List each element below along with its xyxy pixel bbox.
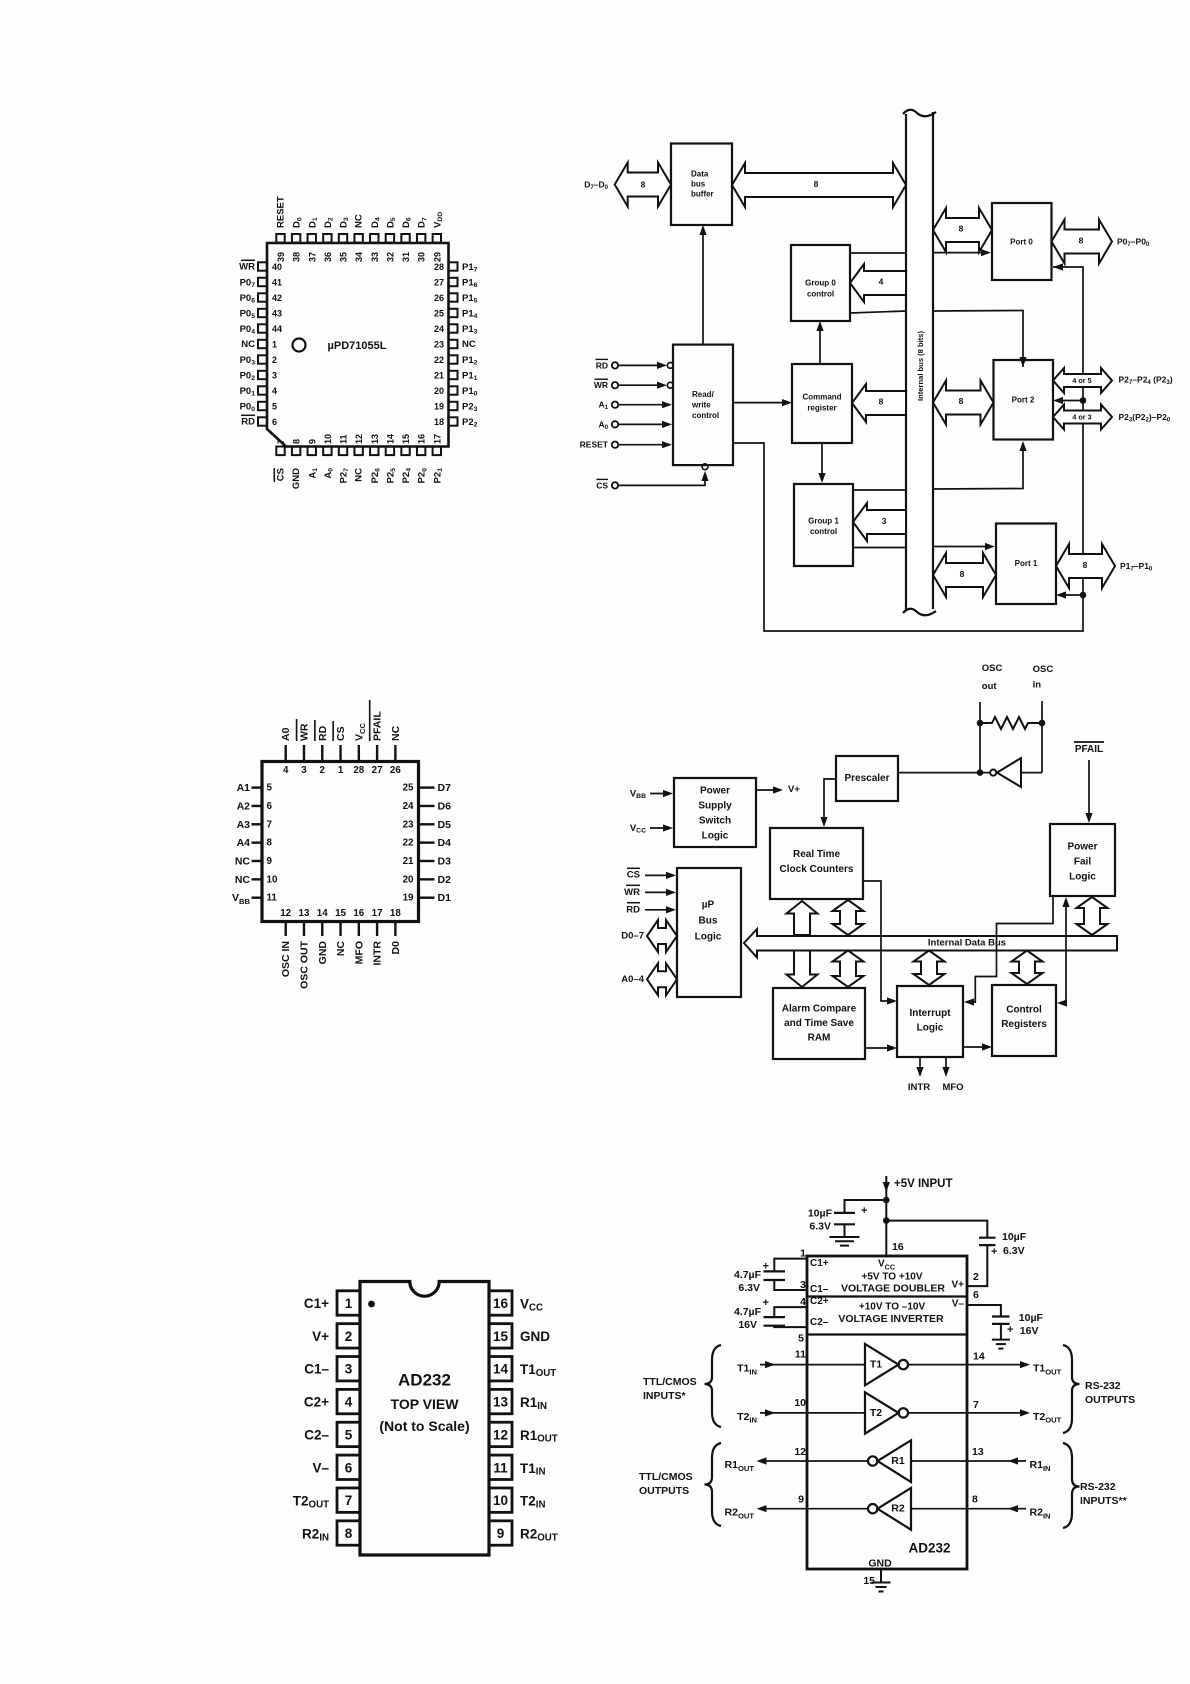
svg-text:23: 23: [434, 340, 444, 350]
block control registers: [992, 985, 1056, 1056]
svg-text:D1: D1: [438, 892, 452, 904]
block port 0: [992, 203, 1052, 280]
svg-text:OUTPUTS: OUTPUTS: [639, 1485, 689, 1497]
svg-text:RD: RD: [596, 360, 608, 370]
svg-text:4: 4: [283, 765, 289, 776]
IC U1 uPD71055L PLCC-44 package outline: [267, 243, 449, 447]
pin 42 (P06) left: [258, 293, 267, 301]
svg-text:1: 1: [800, 1248, 806, 1260]
pin 22 (D4) right: [419, 841, 435, 843]
svg-text:13: 13: [299, 908, 310, 919]
svg-text:9: 9: [798, 1494, 804, 1506]
svg-text:T2OUT: T2OUT: [1033, 1411, 1062, 1424]
svg-text:Command: Command: [802, 393, 841, 402]
svg-text:A0: A0: [598, 419, 608, 430]
svg-text:WR: WR: [624, 887, 640, 898]
svg-text:T1OUT: T1OUT: [1033, 1363, 1062, 1376]
svg-text:VOLTAGE INVERTER: VOLTAGE INVERTER: [838, 1313, 944, 1325]
svg-text:2: 2: [345, 1329, 353, 1344]
pin 11 (P27) bottom: [339, 447, 347, 456]
capacitor C4 10uF 6.3V: [886, 1221, 987, 1238]
svg-text:OSC IN: OSC IN: [280, 941, 292, 977]
svg-text:Port 2: Port 2: [1012, 396, 1035, 405]
svg-text:C1–: C1–: [304, 1362, 329, 1377]
svg-text:V+: V+: [788, 784, 800, 795]
svg-text:38: 38: [292, 252, 302, 262]
svg-text:AD232: AD232: [908, 1541, 950, 1556]
svg-text:A0: A0: [280, 727, 292, 741]
svg-text:+5V INPUT: +5V INPUT: [894, 1178, 952, 1190]
svg-text:29: 29: [432, 252, 442, 262]
svg-text:13: 13: [370, 434, 380, 444]
svg-text:V+: V+: [951, 1280, 964, 1291]
capacitor C5 10uF 16V: [967, 1305, 1001, 1317]
pin 41 (P07) left: [258, 278, 267, 286]
svg-text:4 or 3: 4 or 3: [1072, 413, 1091, 422]
svg-text:8: 8: [1079, 236, 1084, 246]
svg-text:6: 6: [267, 801, 273, 812]
svg-text:13: 13: [493, 1395, 509, 1410]
svg-text:INPUTS*: INPUTS*: [643, 1390, 687, 1402]
pin 24 (P13) right: [449, 324, 458, 332]
block port 1: [996, 524, 1056, 605]
pin 5 (A1) left: [252, 786, 263, 788]
svg-text:14: 14: [317, 908, 328, 919]
svg-text:and Time Save: and Time Save: [784, 1018, 854, 1029]
svg-text:7: 7: [973, 1399, 979, 1411]
pin 21 (P11) right: [449, 371, 458, 379]
svg-text:12: 12: [794, 1446, 806, 1458]
pin 15 (P24) bottom: [401, 447, 409, 456]
block data bus buffer: [671, 144, 732, 226]
svg-text:11: 11: [795, 1349, 806, 1361]
svg-text:18: 18: [434, 417, 444, 427]
bus arrow RTC counters to data bus (write): [787, 901, 818, 935]
svg-text:Prescaler: Prescaler: [844, 773, 889, 784]
capacitor C3 10uF 6.3V: [845, 1200, 887, 1213]
svg-text:WR: WR: [594, 380, 608, 390]
wire OSC in to inverter input: [1021, 772, 1042, 774]
svg-text:5: 5: [267, 783, 273, 794]
wire read/write control feedback to ports (right loop): [733, 267, 1083, 631]
pin 1 (NC) left: [258, 340, 267, 348]
pin 1 (C1+) left: [337, 1291, 360, 1315]
svg-text:MFO: MFO: [942, 1082, 963, 1093]
svg-text:Supply: Supply: [698, 801, 732, 812]
pin 27 (PFAIL) top: [376, 745, 378, 762]
svg-text:T2IN: T2IN: [737, 1411, 757, 1424]
pin 1 indicator dot: [368, 1301, 375, 1308]
svg-text:A1: A1: [237, 782, 251, 794]
svg-text:C1+: C1+: [304, 1296, 329, 1311]
svg-text:NC: NC: [354, 468, 365, 482]
pin 20 (P10) right: [449, 386, 458, 394]
svg-text:P14: P14: [462, 308, 478, 320]
block alarm compare and time save RAM: [773, 988, 865, 1059]
wire inverter output to prescaler: [898, 772, 990, 774]
svg-text:NC: NC: [235, 874, 251, 886]
block prescaler: [836, 756, 898, 801]
pin 14 (T1OUT) right: [489, 1357, 512, 1381]
svg-text:+: +: [1007, 1324, 1013, 1336]
svg-text:D0: D0: [291, 217, 303, 228]
svg-text:4: 4: [272, 386, 277, 396]
brace TTL/CMOS outputs: [705, 1443, 722, 1526]
svg-text:3: 3: [345, 1362, 353, 1377]
svg-text:12: 12: [280, 908, 291, 919]
pin 15 (GND) right: [489, 1324, 512, 1348]
svg-text:4: 4: [800, 1296, 806, 1308]
svg-text:R1OUT: R1OUT: [520, 1427, 558, 1444]
svg-text:P15: P15: [462, 293, 478, 305]
output INTR: [919, 1057, 921, 1071]
svg-text:D3: D3: [338, 217, 350, 228]
junction dot inverter output / OSC out: [977, 769, 984, 776]
wire group 1 control to port 2 bottom: [853, 489, 906, 491]
svg-text:Internal Data Bus: Internal Data Bus: [928, 938, 1006, 949]
internal data bus band: [744, 929, 1117, 958]
pin 13 (P26) bottom: [370, 447, 378, 456]
svg-text:18: 18: [390, 908, 401, 919]
pin 12 (NC) bottom: [354, 447, 362, 456]
svg-text:24: 24: [434, 324, 444, 334]
svg-text:µP: µP: [702, 900, 715, 911]
svg-text:T1IN: T1IN: [737, 1363, 757, 1376]
svg-text:P27: P27: [338, 468, 350, 484]
pin 27 (P16) right: [449, 278, 458, 286]
capacitor C1 4.7uF 6.3V: [774, 1259, 807, 1272]
wire group 0 control to port 0: [850, 252, 906, 254]
svg-text:8: 8: [267, 838, 273, 849]
svg-text:15: 15: [401, 434, 411, 444]
svg-text:C2+: C2+: [810, 1296, 829, 1307]
svg-text:22: 22: [434, 355, 444, 365]
svg-text:T1: T1: [870, 1359, 882, 1371]
svg-text:5: 5: [798, 1333, 804, 1345]
buffer T1: [760, 1364, 865, 1366]
svg-text:OSC: OSC: [982, 663, 1003, 674]
svg-text:D7: D7: [438, 782, 452, 794]
svg-text:+5V TO +10V: +5V TO +10V: [862, 1272, 923, 1283]
svg-text:4.7µF: 4.7µF: [734, 1269, 762, 1281]
svg-text:8: 8: [960, 569, 965, 579]
svg-text:Switch: Switch: [699, 816, 731, 827]
svg-text:8: 8: [959, 224, 964, 234]
svg-text:+: +: [762, 1297, 768, 1309]
pin 16 (P20) bottom: [417, 447, 425, 456]
svg-text:10: 10: [493, 1493, 508, 1508]
pin 8 (R2IN) left: [337, 1521, 360, 1545]
svg-text:21: 21: [403, 856, 414, 867]
svg-text:10: 10: [323, 434, 333, 444]
svg-text:27: 27: [434, 278, 444, 288]
svg-text:D6: D6: [401, 217, 413, 228]
svg-text:5: 5: [345, 1427, 353, 1442]
svg-text:15: 15: [335, 908, 346, 919]
pin 18 (D0) bottom: [394, 922, 396, 937]
svg-text:16: 16: [417, 434, 427, 444]
svg-text:C2–: C2–: [304, 1427, 329, 1442]
svg-text:8: 8: [1083, 560, 1088, 570]
svg-text:Power: Power: [700, 786, 730, 797]
input WR to read/write control: [612, 382, 618, 388]
svg-text:Real Time: Real Time: [793, 849, 840, 860]
svg-text:P12: P12: [462, 355, 478, 367]
svg-text:P17–P10: P17–P10: [1120, 561, 1153, 572]
pin 19 (P23) right: [449, 402, 458, 410]
IC U2 real-time clock 28-pin package outline: [262, 762, 419, 922]
svg-text:11: 11: [339, 434, 349, 444]
svg-text:T2OUT: T2OUT: [293, 1493, 329, 1510]
svg-text:WR: WR: [239, 262, 255, 273]
receiver R2: [911, 1508, 967, 1510]
svg-text:16: 16: [353, 908, 364, 919]
junction dot OSC in / resistor: [1039, 720, 1046, 727]
svg-text:6: 6: [345, 1460, 353, 1475]
svg-text:8: 8: [959, 396, 964, 406]
pin 2 (P03) left: [258, 355, 267, 363]
junction dot +5V/C4: [883, 1217, 890, 1224]
svg-text:6.3V: 6.3V: [1003, 1245, 1025, 1257]
pin 28 (VCC) top: [358, 745, 360, 762]
svg-text:P00: P00: [240, 401, 256, 413]
pin 21 (D3) right: [419, 860, 435, 862]
svg-text:32: 32: [385, 252, 395, 262]
svg-text:20: 20: [434, 386, 444, 396]
svg-text:VDD: VDD: [432, 212, 444, 228]
svg-text:TOP VIEW: TOP VIEW: [391, 1396, 460, 1412]
svg-text:in: in: [1033, 680, 1042, 691]
ground (C3): [844, 1224, 846, 1237]
block read/write control: [673, 345, 733, 466]
pin 2 (RD) top: [321, 745, 323, 762]
svg-text:P13: P13: [462, 324, 478, 336]
wire power fail logic to interrupt logic: [970, 896, 1053, 1002]
pin 23 (NC) right: [449, 340, 458, 348]
svg-text:Bus: Bus: [699, 916, 718, 927]
block command register: [792, 364, 852, 443]
svg-text:Alarm Compare: Alarm Compare: [782, 1004, 857, 1015]
block port 2: [994, 360, 1054, 440]
svg-text:P05: P05: [240, 308, 256, 320]
svg-text:RS-232: RS-232: [1080, 1481, 1116, 1493]
svg-text:3: 3: [272, 371, 277, 381]
junction dot OSC out / resistor: [977, 720, 984, 727]
receiver R1: [911, 1460, 967, 1462]
svg-text:T2: T2: [870, 1407, 882, 1419]
wire RTC counters to interrupt logic (crossing bus): [863, 881, 891, 1001]
pin 43 (P05) left: [258, 309, 267, 317]
svg-text:D0–7: D0–7: [621, 931, 644, 942]
input CS to read/write control: [612, 482, 618, 488]
svg-text:Data: Data: [691, 170, 709, 179]
svg-text:Internal bus (8 bits): Internal bus (8 bits): [916, 330, 925, 401]
svg-text:INTR: INTR: [372, 941, 384, 966]
svg-text:15: 15: [863, 1575, 875, 1587]
wire command register to group 1 control: [821, 443, 823, 477]
svg-text:R2: R2: [891, 1503, 905, 1515]
svg-text:D5: D5: [385, 217, 397, 228]
svg-text:P26: P26: [369, 468, 381, 484]
junction dot +5V/C3: [883, 1197, 890, 1204]
pin 1 (CS) top: [339, 745, 341, 762]
bus arrow internal bus to port 2: [933, 381, 994, 425]
bus arrow port 2 upper external (4 or 5): [1053, 368, 1112, 393]
pin 4 (P01) left: [258, 386, 267, 394]
svg-text:D2: D2: [438, 874, 452, 886]
svg-text:14: 14: [973, 1351, 985, 1363]
pin 8 (GND) bottom: [292, 447, 300, 456]
svg-text:33: 33: [370, 252, 380, 262]
svg-text:25: 25: [434, 309, 444, 319]
wire OSC out: [979, 702, 981, 773]
svg-text:1: 1: [272, 340, 277, 350]
bus arrow data bus to alarm RAM (write): [787, 951, 818, 988]
bus arrow data bus buffer to internal bus: [732, 163, 906, 207]
input RESET to read/write control: [612, 442, 618, 448]
svg-text:26: 26: [434, 293, 444, 303]
svg-text:13: 13: [972, 1446, 984, 1458]
svg-text:buffer: buffer: [691, 190, 714, 199]
svg-text:PFAIL: PFAIL: [372, 711, 384, 741]
svg-text:9: 9: [307, 439, 317, 444]
svg-text:4: 4: [345, 1395, 353, 1410]
svg-text:1: 1: [338, 765, 344, 776]
pin 12 (OSC IN) bottom: [285, 922, 287, 937]
svg-text:R1OUT: R1OUT: [725, 1459, 755, 1472]
svg-text:12: 12: [354, 434, 364, 444]
svg-text:GND: GND: [520, 1329, 550, 1344]
node +5V INPUT: [885, 1176, 887, 1256]
svg-text:A0: A0: [322, 468, 334, 479]
svg-text:36: 36: [323, 252, 333, 262]
svg-text:NC: NC: [241, 339, 255, 350]
svg-text:RD: RD: [317, 725, 329, 741]
svg-text:21: 21: [434, 371, 444, 381]
svg-text:GND: GND: [291, 468, 302, 489]
svg-text:16: 16: [493, 1296, 509, 1311]
pin 30 (D7) top: [417, 234, 425, 243]
svg-text:D3: D3: [438, 856, 452, 868]
svg-text:MFO: MFO: [353, 941, 365, 964]
svg-text:37: 37: [307, 252, 317, 262]
block microprocessor bus logic: [677, 868, 741, 997]
svg-text:V–: V–: [312, 1460, 329, 1475]
svg-text:V–: V–: [952, 1299, 965, 1310]
svg-text:39: 39: [276, 252, 286, 262]
svg-text:P02: P02: [240, 370, 256, 382]
ground (C5): [1000, 1324, 1002, 1339]
svg-text:GND: GND: [868, 1558, 892, 1570]
voltage inverter section divider: [807, 1333, 967, 1335]
pin 26 (P15) right: [449, 293, 458, 301]
pin 7 (T2OUT) left: [337, 1488, 360, 1512]
wire feedback to port 1 right: [1062, 594, 1083, 596]
svg-text:20: 20: [403, 874, 414, 885]
svg-text:T1OUT: T1OUT: [520, 1362, 556, 1379]
svg-text:(Not to Scale): (Not to Scale): [379, 1418, 469, 1434]
svg-text:16: 16: [892, 1241, 904, 1253]
IC U3 AD232 DIP-16 package outline with notch: [360, 1282, 489, 1556]
wire group 1 control to port 1: [853, 547, 906, 549]
bus arrow power fail logic bidirectional: [1077, 897, 1108, 935]
svg-text:Group 1: Group 1: [808, 517, 839, 526]
svg-text:P06: P06: [240, 293, 256, 305]
svg-text:17: 17: [372, 908, 383, 919]
redraw wire RTC-interrupt across bus: [880, 936, 882, 951]
bus arrow port 0 external: [1052, 220, 1113, 264]
svg-text:A4: A4: [237, 837, 251, 849]
svg-text:RS-232: RS-232: [1085, 1380, 1121, 1392]
pin 35 (D3) top: [339, 234, 347, 243]
pin 9 (NC) left: [252, 860, 263, 862]
pin 11 (T1IN) right: [489, 1455, 512, 1479]
pin 13 (R1IN) right: [489, 1389, 512, 1413]
bus arrow D7-D0 external: [615, 163, 671, 207]
pin 8 (A4) left: [252, 841, 263, 843]
svg-text:R1IN: R1IN: [520, 1395, 547, 1412]
svg-text:17: 17: [432, 434, 442, 444]
svg-text:P23(P22)–P20: P23(P22)–P20: [1119, 412, 1171, 423]
svg-text:10µF: 10µF: [1002, 1231, 1027, 1243]
pin 22 (P12) right: [449, 355, 458, 363]
wire C4 to V+ pin 2: [967, 1245, 987, 1286]
svg-text:write: write: [691, 401, 711, 410]
svg-text:RAM: RAM: [808, 1033, 831, 1044]
pin 6 (A2) left: [252, 805, 263, 807]
svg-text:T1IN: T1IN: [520, 1460, 545, 1477]
svg-text:P10: P10: [462, 386, 478, 398]
svg-text:44: 44: [272, 324, 282, 334]
pin 14 (GND) bottom: [321, 922, 323, 937]
block group 0 control: [791, 245, 850, 321]
svg-text:10: 10: [267, 874, 278, 885]
svg-text:INPUTS**: INPUTS**: [1080, 1495, 1128, 1507]
svg-text:CS: CS: [335, 726, 347, 741]
svg-text:Port 0: Port 0: [1010, 238, 1033, 247]
svg-text:P20: P20: [416, 468, 428, 484]
pin 26 (NC) top: [394, 745, 396, 762]
svg-text:control: control: [810, 527, 837, 536]
svg-text:P17: P17: [462, 262, 478, 274]
svg-text:D1: D1: [307, 217, 319, 228]
svg-text:41: 41: [272, 278, 282, 288]
svg-text:OSC: OSC: [1033, 664, 1054, 675]
svg-text:10µF: 10µF: [1019, 1312, 1044, 1324]
wire read/write control to command register: [733, 402, 786, 404]
output V+: [756, 789, 777, 791]
svg-text:6: 6: [272, 417, 277, 427]
pin 7 (A3) left: [252, 823, 263, 825]
svg-text:R2OUT: R2OUT: [725, 1507, 755, 1520]
svg-text:Logic: Logic: [917, 1023, 944, 1034]
wire PFAIL to power fail logic: [1088, 760, 1090, 817]
svg-text:14: 14: [493, 1362, 509, 1377]
wire command register to group 0 control: [819, 328, 821, 364]
svg-text:C2–: C2–: [810, 1317, 829, 1328]
svg-text:40: 40: [272, 262, 282, 272]
svg-text:A3: A3: [237, 819, 251, 831]
wire power fail logic / control registers: [1063, 903, 1066, 1003]
pin 5 (P00) left: [258, 402, 267, 410]
internal bus (8 bits): [906, 112, 933, 613]
svg-text:P04: P04: [240, 324, 256, 336]
svg-text:NC: NC: [354, 214, 365, 228]
svg-text:VCC: VCC: [630, 823, 646, 835]
svg-text:A0–4: A0–4: [621, 974, 644, 985]
svg-text:VCC: VCC: [520, 1296, 543, 1313]
svg-text:Power: Power: [1067, 842, 1097, 853]
